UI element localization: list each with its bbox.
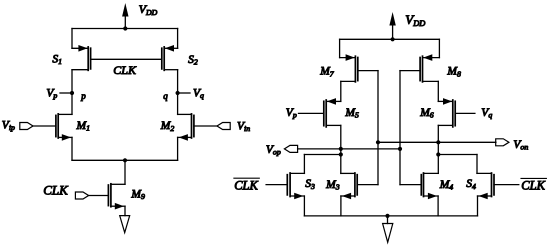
svg-text:q: q <box>163 91 168 101</box>
svg-text:p: p <box>80 91 86 101</box>
svg-text:CLK: CLK <box>521 178 545 192</box>
svg-text:CLK: CLK <box>43 183 69 198</box>
svg-text:CLK: CLK <box>113 63 137 77</box>
svg-text:CLK: CLK <box>234 178 258 192</box>
